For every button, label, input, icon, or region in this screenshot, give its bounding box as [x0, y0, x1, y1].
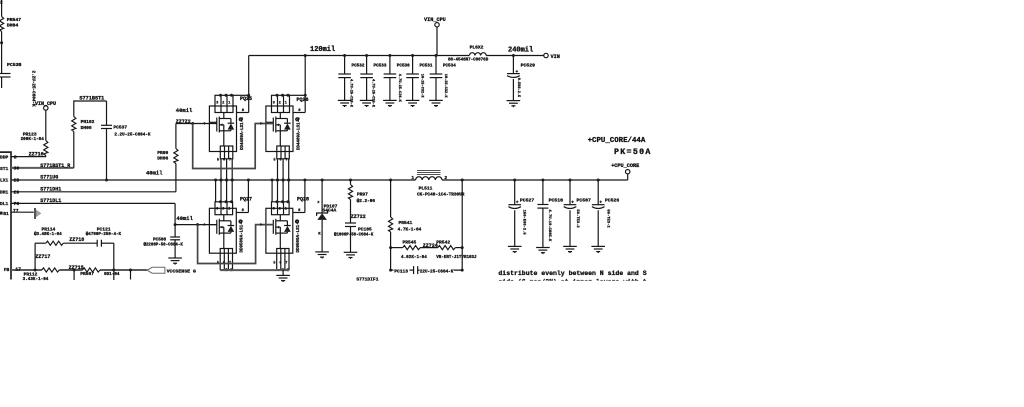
svg-text:VIN_CPU: VIN_CPU: [424, 17, 446, 23]
resistor PR97: [348, 185, 352, 200]
svg-text:0D1-04: 0D1-04: [104, 272, 120, 277]
capacitor PC121 (series): [96, 240, 98, 247]
svg-text:S771BST1_R: S771BST1_R: [40, 163, 70, 169]
svg-text:PR545: PR545: [403, 240, 417, 246]
svg-text:@4700P-250-4-K: @4700P-250-4-K: [86, 232, 122, 237]
capacitor PC508: [174, 225, 176, 237]
svg-text:PC508: PC508: [153, 238, 167, 243]
wire to pin 8: [45, 156, 47, 157]
pin 29 DH1: [11, 191, 176, 193]
svg-text:PR547: PR547: [7, 17, 22, 23]
node VIN (open terminal): [544, 53, 548, 57]
wire left edge column: [1, 0, 3, 17]
ground: [591, 246, 605, 253]
pin 8 VDDP: [11, 156, 46, 158]
svg-text:PK=50A: PK=50A: [614, 148, 652, 157]
svg-text:10-25-C32-K: 10-25-C32-K: [420, 74, 424, 99]
svg-text:PC507: PC507: [577, 197, 592, 203]
wire: [45, 110, 47, 140]
node VIN rail joins PQ26 drain: [304, 54, 307, 57]
wire VIN_CPU riser: [436, 27, 438, 56]
wire: [350, 180, 352, 185]
capacitor PC531: [406, 54, 433, 100]
svg-text:S4C4A: S4C4A: [323, 208, 337, 214]
ground: [315, 252, 329, 259]
svg-text:PC534: PC534: [443, 64, 456, 69]
thermistor PR542: [438, 246, 456, 250]
svg-text:200K-1-04: 200K-1-04: [21, 137, 45, 142]
gate arrow marks: [204, 122, 207, 125]
resistor PR541: [389, 217, 393, 232]
wire: [390, 180, 392, 217]
wire DH riser: [175, 164, 177, 192]
resistor PR114: [46, 241, 64, 245]
svg-text:PC105: PC105: [358, 226, 372, 232]
svg-text:ZZ7Z2: ZZ7Z2: [176, 119, 191, 125]
svg-text:PQ28: PQ28: [297, 197, 309, 203]
ground: [360, 100, 374, 107]
svg-text:PC537: PC537: [113, 124, 127, 130]
svg-text:1: 1: [411, 175, 414, 181]
off-page arrow VCCSENSE: [147, 267, 165, 273]
wire node ZZ718: [63, 242, 97, 244]
svg-text:40mil: 40mil: [176, 107, 193, 114]
svg-text:PL511: PL511: [419, 185, 433, 191]
wire: [390, 232, 392, 248]
svg-text:56-TE3-2: 56-TE3-2: [575, 209, 579, 228]
off-page terminator pin77: [34, 208, 36, 219]
capacitor PC510: [537, 179, 563, 248]
capacitor PC537: [106, 101, 108, 125]
wire lower gate loop to PQ28: [198, 225, 274, 264]
wire ZZ717 drop: [34, 243, 36, 270]
svg-text:29: 29: [14, 189, 20, 195]
node +CPU_CORE terminal: [627, 174, 629, 180]
node junction: [0, 41, 3, 44]
svg-text:0-E03-2.5: 0-E03-2.5: [516, 78, 520, 97]
svg-text:ZZ718: ZZ718: [69, 237, 84, 243]
ground: [536, 248, 550, 255]
svg-text:+: +: [516, 70, 519, 75]
svg-text:PR102: PR102: [81, 119, 95, 125]
ground: [507, 101, 521, 108]
resistor PR567: [83, 268, 101, 272]
svg-text:S771DH1: S771DH1: [40, 186, 61, 192]
svg-text:PR541: PR541: [399, 220, 413, 226]
svg-text:10-25-C32-K: 10-25-C32-K: [443, 74, 447, 99]
svg-text:ST1: ST1: [0, 166, 9, 172]
capacitor PC529 (polarized): [507, 54, 535, 101]
svg-text:PR114: PR114: [42, 227, 56, 233]
wire: [1, 32, 3, 74]
pin 77 stub: [11, 211, 34, 213]
svg-text:4.7U-25-C26-K: 4.7U-25-C26-K: [349, 79, 353, 108]
svg-text:PC526: PC526: [605, 197, 620, 203]
svg-text:ZZ717: ZZ717: [35, 254, 50, 260]
svg-text:DH06: DH06: [157, 156, 168, 162]
svg-text:@2200P-50-C604-K: @2200P-50-C604-K: [144, 243, 184, 248]
svg-text:PR99: PR99: [157, 150, 168, 156]
transistor PQ28 (low-side): [266, 179, 307, 272]
svg-text:PQ27: PQ27: [240, 197, 252, 203]
svg-text:PC529: PC529: [521, 63, 536, 69]
svg-text:PR97: PR97: [357, 191, 368, 197]
inductor PL6K2: [469, 53, 486, 56]
svg-text:PL6X2: PL6X2: [470, 44, 484, 50]
transistor PQ25 (high-side): [209, 56, 250, 182]
wire DL drop: [175, 203, 217, 224]
svg-text:VIN: VIN: [551, 54, 560, 60]
wire phase rail: [11, 179, 416, 181]
svg-text:@3.48K-1-04: @3.48K-1-04: [34, 232, 62, 237]
capacitor PC53B: [0, 73, 11, 75]
wire: [455, 247, 462, 249]
capacitor PC527 (polarized): [508, 179, 534, 247]
svg-text:B1: B1: [3, 211, 9, 217]
svg-text:40mil: 40mil: [176, 215, 193, 222]
svg-text:PC531: PC531: [420, 64, 433, 69]
svg-text:2.2U-25-C604-K: 2.2U-25-C604-K: [114, 132, 151, 137]
wire BST rail S771BST1: [74, 101, 107, 117]
svg-text:+CPU_CORE: +CPU_CORE: [611, 163, 639, 169]
svg-text:30: 30: [14, 166, 20, 172]
wire source line: [220, 269, 289, 271]
wire sense row: [391, 247, 403, 249]
svg-text:8: 8: [14, 154, 17, 160]
ground: [563, 246, 577, 253]
capacitor PC507 (polarized): [564, 179, 591, 247]
svg-text:120mil: 120mil: [310, 46, 335, 54]
wire VIN rail: [249, 55, 470, 57]
svg-text:DDP: DDP: [0, 155, 9, 161]
ground: [429, 100, 443, 107]
wire node ZZ722: [350, 200, 352, 224]
svg-text:DH1: DH1: [0, 190, 9, 196]
resistor PR112: [42, 268, 60, 272]
svg-text:@2.2-06: @2.2-06: [357, 199, 376, 204]
wire stub: [73, 270, 75, 280]
wire output rail: [442, 179, 628, 181]
svg-text:PC530: PC530: [397, 64, 410, 69]
svg-text:4.7K-1-04: 4.7K-1-04: [398, 228, 422, 233]
svg-text:4.7U-25-C26-K: 4.7U-25-C26-K: [371, 79, 375, 108]
capacitor PC534: [430, 54, 457, 100]
svg-text:PC121: PC121: [97, 227, 111, 233]
svg-text:+: +: [571, 200, 574, 205]
wire upper gate bus ZZ7Z2: [176, 123, 217, 125]
capacitor PC533: [360, 54, 387, 108]
svg-text:ZZ716: ZZ716: [29, 152, 44, 158]
ground: [383, 100, 397, 107]
svg-text:17: 17: [15, 267, 21, 273]
svg-text:56-TE3-2: 56-TE3-2: [606, 209, 610, 228]
resistor PR102: [72, 117, 76, 132]
svg-text:PR567: PR567: [80, 271, 94, 277]
wire stub: [130, 270, 132, 280]
svg-text:VCCSENSE G: VCCSENSE G: [167, 268, 196, 274]
capacitor PC530: [384, 54, 411, 103]
wire right sense riser: [461, 180, 463, 270]
capacitor PC105: [345, 222, 356, 224]
svg-text:+: +: [599, 200, 602, 205]
svg-text:240mil: 240mil: [508, 47, 533, 55]
svg-text:S771BST1: S771BST1: [79, 96, 104, 102]
resistor PR545: [403, 246, 421, 250]
svg-text:PC533: PC533: [374, 64, 387, 69]
wire upper gate loop to PQ26: [193, 124, 274, 169]
wire BST riser: [73, 132, 75, 168]
svg-text:PQ26: PQ26: [297, 97, 309, 103]
svg-text:CK-PC40-1C4-TR30UR: CK-PC40-1C4-TR30UR: [417, 193, 465, 198]
ground: [282, 270, 284, 275]
node junction: [129, 269, 132, 272]
svg-text:PC113: PC113: [394, 268, 408, 274]
svg-text:distribute evenly between N si: distribute evenly between N side and S: [498, 270, 646, 277]
capacitor PC526 (polarized): [592, 179, 620, 247]
op-amp/controller IC box edge: [0, 152, 11, 279]
svg-text:DH04: DH04: [7, 23, 19, 29]
svg-text:2: 2: [0, 0, 3, 6]
svg-text:PC510: PC510: [549, 197, 564, 203]
svg-text:VR-ERT-J1TVR103J: VR-ERT-J1TVR103J: [436, 256, 477, 260]
ground: [168, 258, 182, 265]
svg-text:S771DL1: S771DL1: [40, 198, 61, 204]
ground: [338, 100, 352, 107]
svg-text:PC527: PC527: [520, 197, 535, 203]
wire ZZ718 row: [35, 242, 46, 244]
svg-text:ZZ722: ZZ722: [351, 214, 366, 220]
svg-text:PR542: PR542: [436, 240, 450, 246]
svg-text:S771DIF1: S771DIF1: [356, 277, 378, 283]
pin 17 FB row: [11, 269, 42, 271]
svg-text:4.02K-1-04: 4.02K-1-04: [401, 255, 427, 260]
svg-text:4.7U-25-C26-K: 4.7U-25-C26-K: [397, 74, 401, 103]
capacitor PC532: [338, 54, 365, 108]
svg-text:DH06: DH06: [81, 125, 92, 131]
transistor PQ27 (low-side): [209, 179, 250, 272]
resistor PR547: [0, 17, 4, 32]
gate arrow marks: [204, 223, 207, 226]
svg-text:77: 77: [13, 208, 19, 214]
svg-text:4.7U-10-C805-K: 4.7U-10-C805-K: [547, 209, 551, 242]
diode PD107 (schottky): [317, 210, 328, 216]
svg-text:ZZ715: ZZ715: [69, 265, 84, 271]
svg-text:+CPU_CORE/44A: +CPU_CORE/44A: [588, 137, 646, 145]
ground: [344, 252, 358, 259]
svg-text:76: 76: [14, 201, 20, 207]
resistor PR99: [174, 149, 178, 164]
svg-text:PQ25: PQ25: [240, 96, 252, 102]
svg-text:PC53B: PC53B: [7, 62, 22, 68]
svg-text:150-E03-2.5: 150-E03-2.5: [521, 210, 525, 236]
wire: [321, 180, 323, 213]
ground: [508, 246, 522, 253]
svg-text:40mil: 40mil: [146, 170, 163, 177]
svg-text:LX1: LX1: [0, 178, 9, 184]
wire: [1, 77, 3, 88]
svg-text:PC532: PC532: [352, 64, 365, 69]
svg-text:FB: FB: [4, 267, 10, 273]
ground: [406, 100, 420, 107]
wire sense bottom row: [390, 248, 392, 271]
svg-text:DL1: DL1: [0, 201, 9, 207]
svg-text:@1000P-50-C604-K: @1000P-50-C604-K: [334, 233, 374, 238]
capacitor PC113 (series): [413, 266, 415, 274]
svg-text:+: +: [516, 200, 519, 205]
wire right comp drop: [113, 243, 115, 280]
pin 30 BST1: [11, 167, 74, 169]
svg-text:80-4546N7-C0076D: 80-4546N7-C0076D: [448, 59, 489, 63]
resistor PR123: [44, 141, 48, 156]
pin 76 DL1: [11, 202, 175, 204]
svg-text:22U-25-C604-K: 22U-25-C604-K: [420, 269, 454, 274]
wire node ZZ724: [420, 247, 438, 249]
transistor PQ26 (high-side): [266, 56, 307, 182]
svg-text:3.43K-1-04: 3.43K-1-04: [23, 277, 49, 282]
